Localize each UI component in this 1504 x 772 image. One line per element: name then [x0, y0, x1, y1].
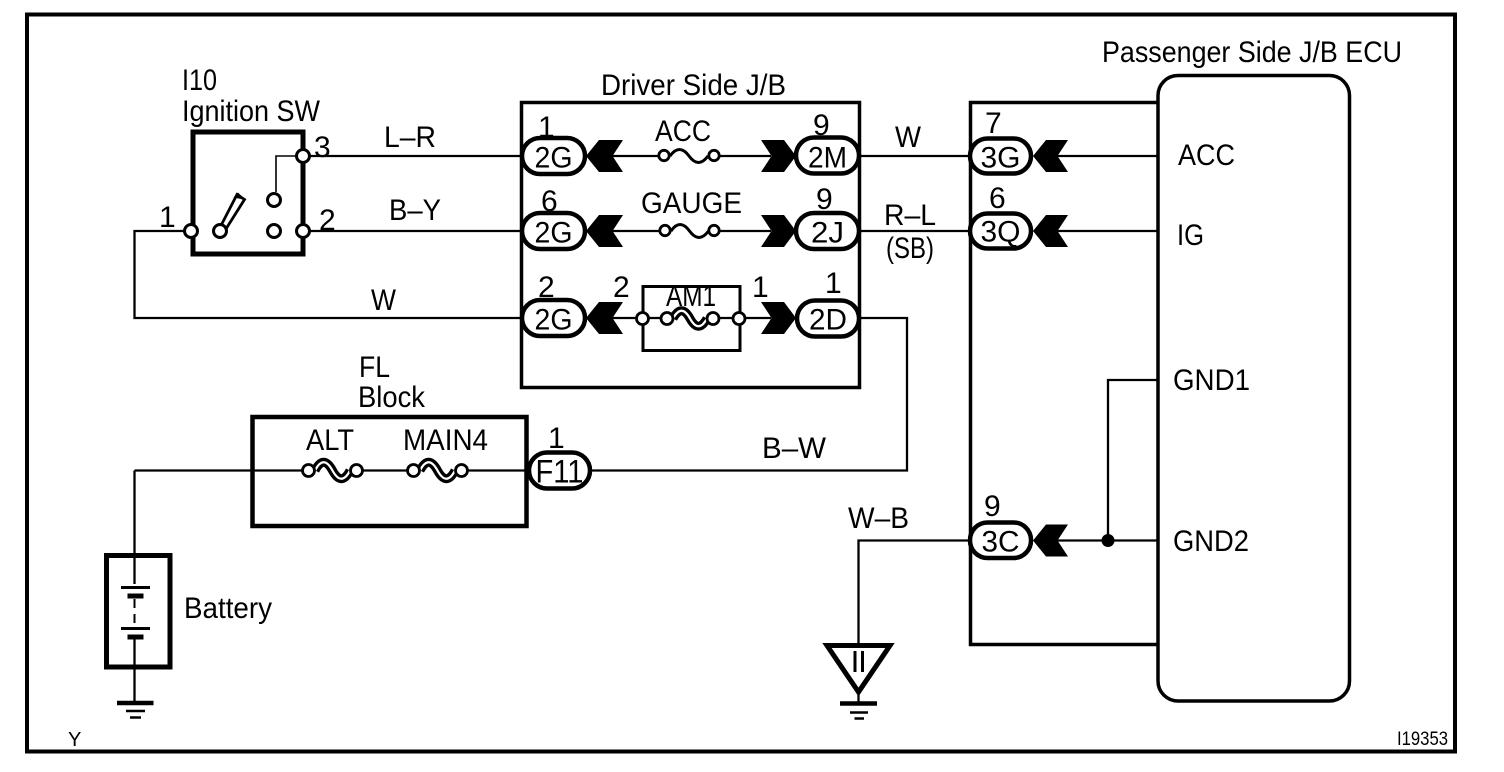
connector 2G row2 [522, 213, 585, 249]
node pin 2 [297, 225, 310, 238]
svg-text:Passenger Side J/B ECU: Passenger Side J/B ECU [1102, 36, 1402, 69]
svg-text:AM1: AM1 [666, 280, 716, 313]
passenger J/B connector box [971, 103, 1158, 645]
arrow left row2 [586, 215, 623, 247]
svg-text:FL: FL [359, 351, 390, 384]
fuse AM1 box [643, 287, 740, 351]
svg-text:2D: 2D [809, 304, 847, 337]
svg-text:Block: Block [358, 381, 426, 414]
node switch mid bottom [268, 225, 281, 238]
arrow right row2 [761, 215, 796, 247]
wire row2 fuse [612, 230, 771, 232]
ground bars [857, 692, 859, 702]
wire L-R pin3 [303, 155, 522, 157]
connector 2D [797, 301, 859, 337]
wire row1 fuse [612, 155, 771, 157]
svg-text:IG: IG [1177, 219, 1204, 252]
ground triangle II [827, 646, 890, 693]
FL block box [253, 417, 527, 526]
fusible link MAIN4 [420, 462, 455, 479]
wire W 2M-3G [859, 155, 971, 157]
svg-text:1: 1 [825, 267, 842, 300]
svg-text:2G: 2G [535, 304, 573, 337]
svg-text:3C: 3C [982, 526, 1020, 559]
ECU box [1158, 76, 1350, 702]
svg-text:Y: Y [68, 729, 81, 751]
battery box [107, 556, 171, 668]
connector 2G row1 [522, 138, 585, 174]
svg-text:GND1: GND1 [1173, 364, 1250, 397]
Driver Side J/B box [522, 103, 860, 388]
node pin 1 [185, 225, 198, 238]
node pin 3 [297, 150, 310, 163]
svg-text:3Q: 3Q [981, 216, 1021, 249]
wire B-Y pin2 [303, 230, 522, 232]
svg-text:(SB): (SB) [886, 232, 934, 265]
junction dot [1102, 534, 1115, 547]
svg-text:2: 2 [319, 204, 336, 237]
svg-text:Ignition SW: Ignition SW [182, 95, 321, 128]
svg-text:9: 9 [984, 490, 1001, 523]
svg-text:2G: 2G [535, 142, 573, 175]
switch lever [221, 195, 245, 231]
battery ground [117, 701, 154, 706]
svg-text:I10: I10 [182, 64, 217, 97]
wire W-B [859, 541, 971, 645]
battery cells [133, 558, 135, 584]
arrow left row3 [586, 302, 623, 334]
node switch common [214, 225, 227, 238]
fuse GAUGE [671, 225, 709, 238]
connector F11 [529, 453, 590, 489]
wire 3Q to ECU [1057, 230, 1158, 232]
connector 3G [970, 139, 1031, 174]
battery ground wire [133, 667, 135, 701]
svg-text:B–W: B–W [762, 432, 827, 465]
svg-text:W: W [371, 284, 397, 317]
svg-text:F11: F11 [536, 454, 584, 490]
svg-text:Battery: Battery [184, 592, 272, 625]
svg-text:7: 7 [985, 107, 1002, 140]
wire 2D down to B-W [590, 318, 907, 471]
wire battery to F11 [135, 471, 530, 557]
svg-text:GAUGE: GAUGE [641, 187, 742, 220]
wire GND2 [1057, 539, 1158, 541]
svg-text:6: 6 [989, 182, 1006, 215]
svg-text:MAIN4: MAIN4 [403, 424, 488, 457]
wire pin1 to W row [135, 231, 523, 318]
wire internal switch [276, 156, 303, 192]
arrow left row1 [586, 140, 623, 172]
svg-text:2: 2 [613, 271, 630, 304]
svg-text:GND2: GND2 [1173, 525, 1249, 558]
svg-text:1: 1 [548, 422, 565, 455]
connector 2M [796, 138, 859, 174]
arrow 3C [1033, 525, 1068, 557]
fuse AM1 wave [673, 311, 707, 327]
svg-text:1: 1 [159, 201, 176, 234]
svg-text:3: 3 [314, 131, 331, 164]
svg-text:2J: 2J [811, 217, 844, 250]
arrow 3G [1033, 140, 1068, 172]
svg-text:L–R: L–R [384, 121, 436, 154]
connector 2G row3 [522, 300, 585, 336]
svg-text:I19353: I19353 [1397, 729, 1448, 750]
svg-text:W–B: W–B [848, 502, 909, 535]
svg-text:R–L: R–L [884, 199, 936, 232]
switch I10 box [193, 132, 303, 254]
svg-text:1: 1 [752, 271, 769, 304]
fusible link ALT [315, 462, 350, 479]
wire R-L 2J-3Q [859, 230, 971, 232]
svg-text:Driver Side J/B: Driver Side J/B [601, 69, 786, 102]
svg-text:2G: 2G [535, 217, 573, 250]
connector 2J [796, 213, 859, 249]
arrow right row1 [761, 140, 796, 172]
svg-text:ACC: ACC [655, 115, 711, 148]
fuse ACC [670, 150, 708, 163]
wire GND1 [1108, 380, 1158, 538]
arrow right row3 [761, 302, 796, 334]
svg-text:ALT: ALT [306, 424, 354, 457]
connector 3Q [970, 214, 1031, 249]
svg-text:2M: 2M [808, 142, 847, 175]
node switch mid top [268, 194, 281, 207]
svg-text:ACC: ACC [1178, 139, 1235, 172]
wire row3 [612, 317, 771, 319]
svg-text:W: W [895, 121, 922, 154]
svg-text:B–Y: B–Y [389, 194, 441, 227]
arrow 3Q [1033, 215, 1068, 247]
connector 3C [970, 523, 1031, 559]
svg-text:3G: 3G [981, 142, 1021, 175]
wire 3G to ECU [1057, 155, 1158, 157]
